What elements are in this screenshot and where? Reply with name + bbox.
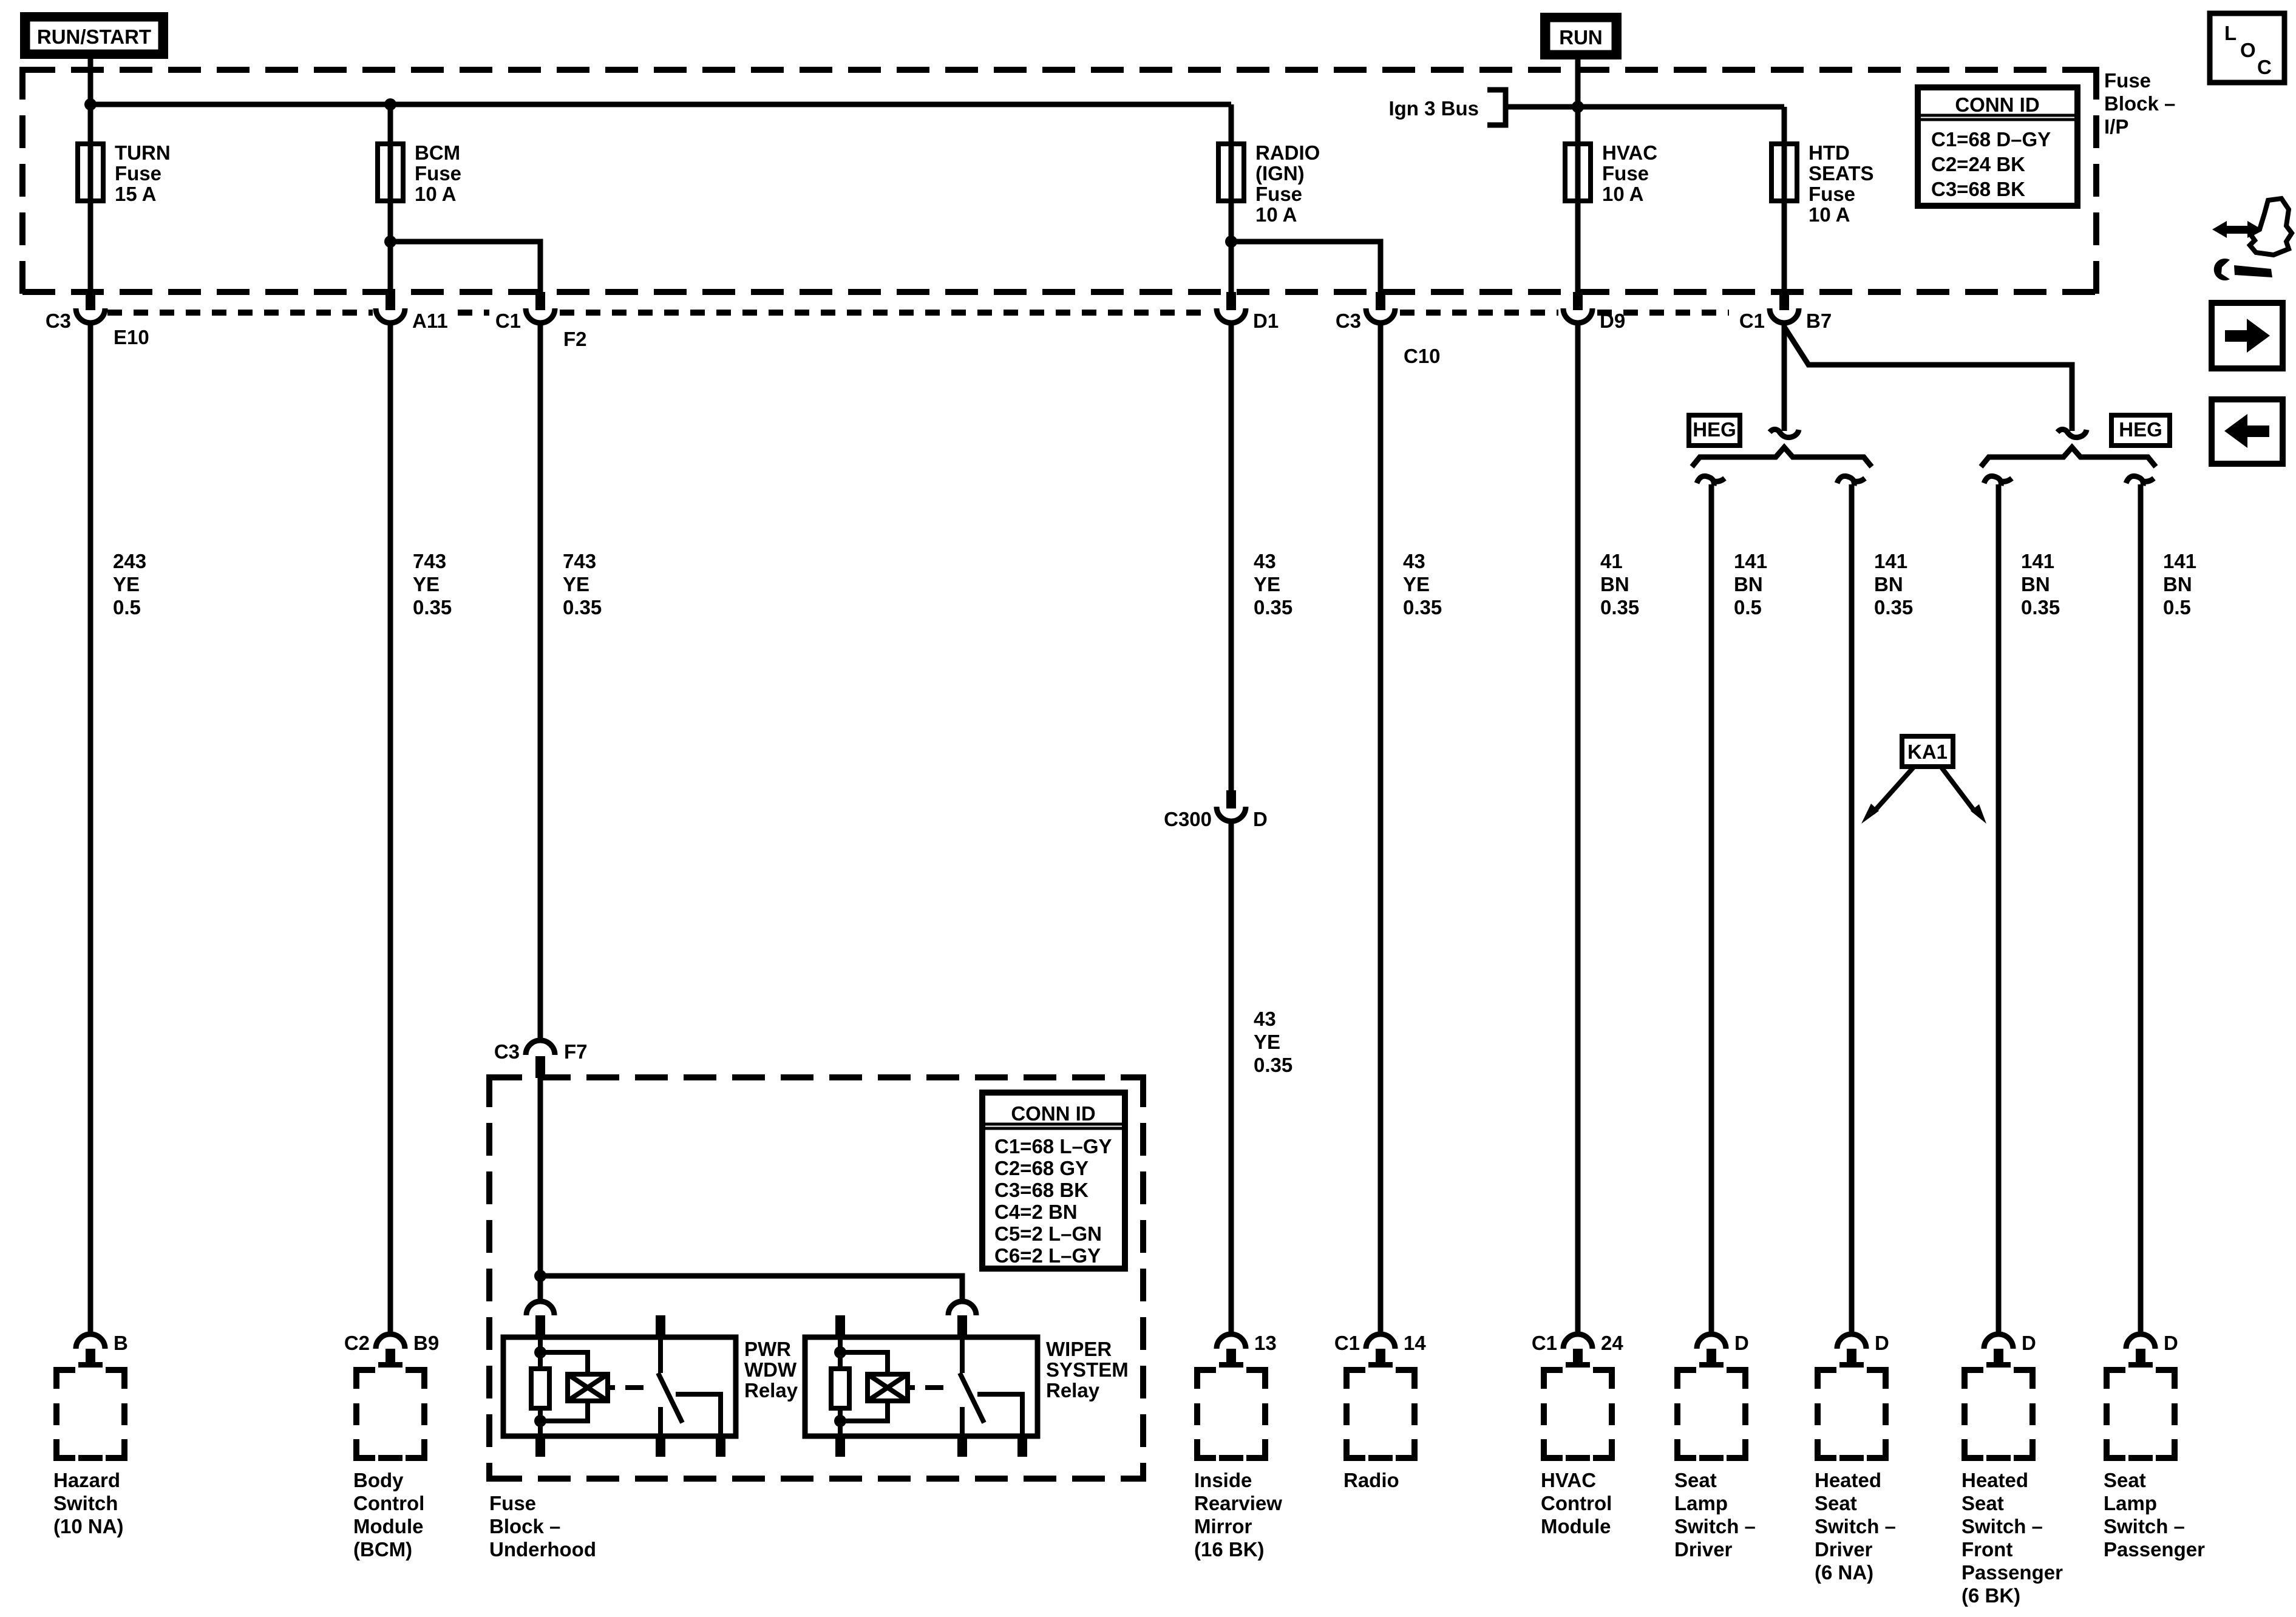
wire 141 BN 0.35 heated seat passenger — [1984, 476, 2012, 486]
svg-text:C3: C3 — [494, 1040, 520, 1063]
svg-text:Lamp: Lamp — [2104, 1492, 2157, 1514]
relay WIPER SYSTEM — [805, 1315, 1129, 1457]
svg-text:Ign 3 Bus: Ign 3 Bus — [1388, 97, 1479, 120]
svg-text:(6 NA): (6 NA) — [1815, 1561, 1873, 1584]
svg-text:Seat: Seat — [1674, 1469, 1717, 1491]
connector pin D — [2126, 1332, 2178, 1368]
svg-text:Switch –: Switch – — [2104, 1515, 2185, 1537]
wire BCM fuse drop — [388, 104, 393, 292]
svg-text:C1: C1 — [495, 310, 521, 332]
connector row dotted line — [107, 310, 1729, 316]
svg-text:0.35: 0.35 — [1874, 596, 1913, 619]
connector C1 pin 24 — [1532, 1332, 1624, 1368]
svg-text:YE: YE — [563, 573, 589, 595]
svg-text:C2: C2 — [344, 1332, 370, 1354]
svg-text:0.35: 0.35 — [1254, 1054, 1292, 1076]
node junction at TURN feed — [84, 98, 97, 110]
svg-text:C6=2 L–GY: C6=2 L–GY — [994, 1244, 1101, 1267]
relay PWR WDW — [503, 1315, 798, 1457]
svg-text:B7: B7 — [1806, 310, 1832, 332]
wire RUN feed — [1575, 59, 1581, 292]
svg-text:Heated: Heated — [1961, 1469, 2028, 1491]
power feed box RUN/START — [20, 12, 168, 59]
svg-text:RADIO: RADIO — [1255, 141, 1320, 164]
component hazard switch — [53, 1367, 127, 1537]
svg-text:YE: YE — [1254, 1031, 1280, 1053]
svg-text:C3: C3 — [1336, 310, 1361, 332]
connector C3 C10 — [1336, 292, 1441, 367]
svg-text:141: 141 — [1874, 550, 1907, 572]
fuse block I/P dashed outline — [22, 67, 2096, 295]
svg-text:Seat: Seat — [1815, 1492, 1857, 1514]
svg-text:D: D — [2022, 1332, 2036, 1354]
svg-text:Inside: Inside — [1194, 1469, 1252, 1491]
wire 743 YE to BCM — [388, 324, 393, 1335]
svg-text:Fuse: Fuse — [2104, 69, 2151, 92]
svg-text:HVAC: HVAC — [1541, 1469, 1596, 1491]
splice hook right — [2057, 429, 2087, 437]
svg-text:Hazard: Hazard — [53, 1469, 120, 1491]
arrow box right — [2212, 303, 2283, 368]
svg-text:(6 BK): (6 BK) — [1961, 1584, 2020, 1607]
fuse block underhood dashed outline — [489, 1074, 1143, 1482]
svg-text:(16 BK): (16 BK) — [1194, 1538, 1265, 1561]
svg-text:Fuse: Fuse — [1602, 162, 1649, 185]
svg-text:0.5: 0.5 — [2163, 596, 2191, 619]
svg-text:0.35: 0.35 — [1600, 596, 1639, 619]
wire B7 branch to right splice — [1785, 328, 2072, 431]
svg-text:I/P: I/P — [2104, 115, 2128, 138]
svg-text:Control: Control — [1541, 1492, 1612, 1514]
svg-text:Underhood: Underhood — [489, 1538, 596, 1561]
svg-text:Passenger: Passenger — [1961, 1561, 2063, 1584]
svg-text:HEG: HEG — [1693, 418, 1736, 441]
svg-text:F2: F2 — [563, 328, 587, 350]
svg-text:A11: A11 — [412, 310, 448, 332]
fuse RADIO IGN 10A — [1218, 144, 1244, 201]
svg-text:743: 743 — [563, 550, 596, 572]
connector C3 E10 — [46, 292, 149, 348]
svg-text:D: D — [2164, 1332, 2178, 1354]
HEG label right — [2111, 415, 2170, 446]
svg-text:C2=24 BK: C2=24 BK — [1931, 153, 2025, 175]
svg-text:PWR: PWR — [744, 1338, 791, 1360]
svg-text:C1=68 L–GY: C1=68 L–GY — [994, 1135, 1112, 1158]
connector id table I/P — [1918, 87, 2077, 206]
svg-text:O: O — [2240, 39, 2256, 61]
svg-text:243: 243 — [113, 550, 146, 572]
svg-text:YE: YE — [1254, 573, 1280, 595]
fuse TURN 15A — [78, 144, 103, 201]
svg-text:D9: D9 — [1600, 310, 1625, 332]
fuse HVAC 10A — [1565, 144, 1591, 201]
svg-text:C3: C3 — [46, 310, 71, 332]
wire 141 BN 0.5 seat lamp driver — [1697, 476, 1725, 486]
connector C3 F7 — [494, 1040, 588, 1078]
svg-text:(10 NA): (10 NA) — [53, 1515, 124, 1537]
svg-text:Mirror: Mirror — [1194, 1515, 1252, 1537]
wire 141 BN 0.5 seat lamp passenger — [2126, 476, 2154, 486]
connector C1 pin 14 — [1334, 1332, 1427, 1368]
svg-text:141: 141 — [2163, 550, 2196, 572]
svg-text:0.5: 0.5 — [1734, 596, 1762, 619]
svg-text:743: 743 — [413, 550, 446, 572]
svg-text:BN: BN — [2021, 573, 2050, 595]
connector D9 — [1563, 292, 1625, 332]
svg-text:24: 24 — [1601, 1332, 1623, 1354]
svg-text:BN: BN — [1600, 573, 1629, 595]
svg-text:10 A: 10 A — [1809, 203, 1850, 226]
svg-text:C1: C1 — [1532, 1332, 1557, 1354]
arrow box left — [2212, 399, 2283, 464]
svg-text:YE: YE — [413, 573, 440, 595]
svg-text:C5=2 L–GN: C5=2 L–GN — [994, 1222, 1102, 1245]
svg-text:Relay: Relay — [1046, 1379, 1100, 1402]
svg-text:Passenger: Passenger — [2104, 1538, 2205, 1561]
svg-text:0.35: 0.35 — [1254, 596, 1292, 619]
svg-text:C1: C1 — [1334, 1332, 1360, 1354]
svg-text:Driver: Driver — [1815, 1538, 1873, 1561]
svg-text:(IGN): (IGN) — [1255, 162, 1305, 185]
svg-text:BN: BN — [2163, 573, 2192, 595]
connector C300 D — [1164, 790, 1268, 830]
connector pin B — [76, 1332, 128, 1368]
svg-text:Switch –: Switch – — [1674, 1515, 1756, 1537]
svg-text:D1: D1 — [1253, 310, 1279, 332]
svg-text:15 A: 15 A — [115, 183, 156, 205]
svg-text:0.35: 0.35 — [413, 596, 452, 619]
wire 243 YE to hazard switch — [88, 324, 93, 1335]
svg-text:Fuse: Fuse — [115, 162, 161, 185]
svg-text:Fuse: Fuse — [1809, 183, 1855, 205]
HEG label left — [1689, 415, 1740, 446]
svg-text:10 A: 10 A — [1602, 183, 1643, 205]
component inside rearview mirror — [1194, 1367, 1282, 1561]
svg-text:Radio: Radio — [1343, 1469, 1399, 1491]
svg-text:KA1: KA1 — [1907, 741, 1948, 763]
svg-text:SYSTEM: SYSTEM — [1046, 1358, 1129, 1381]
svg-text:Rearview: Rearview — [1194, 1492, 1282, 1514]
connector id table underhood — [982, 1093, 1125, 1269]
svg-text:HEG: HEG — [2119, 418, 2162, 441]
svg-text:Switch: Switch — [53, 1492, 118, 1514]
connector pin D — [1837, 1332, 1889, 1368]
svg-text:0.35: 0.35 — [563, 596, 602, 619]
svg-text:SEATS: SEATS — [1809, 162, 1874, 185]
wire 43 YE to C300 — [1229, 324, 1234, 790]
component heated seat switch driver — [1815, 1367, 1896, 1584]
component seat lamp switch passenger — [2104, 1367, 2205, 1561]
wire 41 BN to HVAC control module — [1575, 324, 1581, 1335]
connector pin D — [1697, 1332, 1749, 1368]
svg-text:C1=68 D–GY: C1=68 D–GY — [1931, 128, 2051, 151]
component seat lamp switch driver — [1674, 1367, 1756, 1561]
brace right pair — [1981, 447, 2156, 467]
svg-text:BCM: BCM — [415, 141, 460, 164]
brace left pair — [1692, 447, 1872, 467]
connector D1 — [1217, 292, 1279, 332]
svg-text:Body: Body — [353, 1469, 404, 1491]
wire 141 BN 0.35 heated seat driver — [1837, 476, 1865, 486]
connector C1 F2 — [495, 292, 587, 350]
connector C2 pin B9 — [344, 1332, 439, 1368]
svg-text:BN: BN — [1874, 573, 1903, 595]
component HVAC control module — [1541, 1367, 1615, 1537]
svg-text:0.35: 0.35 — [1403, 596, 1442, 619]
wire 43 YE to inside rearview mirror — [1229, 822, 1234, 1335]
svg-text:C3=68 BK: C3=68 BK — [1931, 178, 2025, 200]
svg-text:0.35: 0.35 — [2021, 596, 2060, 619]
svg-text:RUN/START: RUN/START — [37, 25, 151, 48]
fuse BCM 10A — [378, 144, 403, 201]
svg-text:Module: Module — [353, 1515, 423, 1537]
svg-text:43: 43 — [1254, 550, 1276, 572]
wire 43 YE to radio — [1378, 324, 1384, 1335]
svg-text:41: 41 — [1600, 550, 1623, 572]
node junction BCM branch — [384, 236, 396, 248]
svg-text:0.5: 0.5 — [113, 596, 141, 619]
svg-text:Control: Control — [353, 1492, 424, 1514]
svg-text:43: 43 — [1403, 550, 1425, 572]
svg-text:10 A: 10 A — [1255, 203, 1297, 226]
wire 743 YE to underhood fuse block — [538, 324, 543, 1040]
svg-text:43: 43 — [1254, 1008, 1276, 1030]
connector pin D — [1984, 1332, 2036, 1368]
svg-text:F7: F7 — [564, 1040, 588, 1063]
svg-text:Driver: Driver — [1674, 1538, 1733, 1561]
fuse HTD SEATS 10A — [1771, 144, 1797, 201]
node junction at BCM feed — [384, 98, 396, 110]
svg-text:B: B — [114, 1332, 128, 1354]
connector pin 13 — [1217, 1332, 1277, 1368]
svg-text:Block –: Block – — [2104, 92, 2175, 115]
wire B7 drop to splice — [1782, 324, 1787, 431]
relay coil hook PWR WDW — [526, 1301, 554, 1315]
svg-text:Fuse: Fuse — [1255, 183, 1302, 205]
connector C1 B7 — [1739, 292, 1832, 332]
svg-text:141: 141 — [2021, 550, 2054, 572]
svg-text:CONN ID: CONN ID — [1955, 93, 2039, 116]
svg-text:Module: Module — [1541, 1515, 1611, 1537]
svg-text:RUN: RUN — [1559, 26, 1603, 49]
svg-text:TURN: TURN — [115, 141, 171, 164]
svg-text:C4=2 BN: C4=2 BN — [994, 1201, 1078, 1223]
svg-text:BN: BN — [1734, 573, 1763, 595]
svg-text:HTD: HTD — [1809, 141, 1850, 164]
component radio — [1343, 1367, 1418, 1491]
svg-text:Block –: Block – — [489, 1515, 560, 1537]
connector A11 — [376, 292, 448, 332]
svg-text:WIPER: WIPER — [1046, 1338, 1112, 1360]
svg-text:HVAC: HVAC — [1602, 141, 1657, 164]
service icon hand and wrench — [2212, 198, 2292, 280]
svg-text:Front: Front — [1961, 1538, 2012, 1561]
wire HTD SEATS fuse drop — [1782, 107, 1787, 292]
svg-text:CONN ID: CONN ID — [1011, 1102, 1095, 1125]
svg-text:141: 141 — [1734, 550, 1767, 572]
svg-text:D: D — [1253, 808, 1268, 830]
wire ignition 1 bus — [90, 102, 1231, 107]
wire branch to F2 — [390, 242, 540, 292]
svg-text:Lamp: Lamp — [1674, 1492, 1728, 1514]
svg-text:Switch –: Switch – — [1815, 1515, 1896, 1537]
svg-text:Seat: Seat — [2104, 1469, 2146, 1491]
svg-text:13: 13 — [1254, 1332, 1277, 1354]
relay switch hook WIPER SYSTEM — [948, 1301, 976, 1315]
svg-text:B9: B9 — [413, 1332, 439, 1354]
node junction RUN / ign3 — [1572, 101, 1584, 113]
svg-text:YE: YE — [113, 573, 140, 595]
svg-text:Fuse: Fuse — [415, 162, 461, 185]
wire branch to C10 — [1231, 242, 1381, 292]
svg-text:Fuse: Fuse — [489, 1492, 536, 1514]
splice hook left — [1770, 429, 1799, 437]
svg-text:10 A: 10 A — [415, 183, 456, 205]
wire F7 to relays — [538, 1078, 543, 1301]
svg-text:C300: C300 — [1164, 808, 1212, 830]
svg-text:C2=68 GY: C2=68 GY — [994, 1157, 1089, 1179]
component body control module — [353, 1367, 427, 1561]
svg-text:C10: C10 — [1404, 345, 1441, 367]
LOC legend box — [2210, 13, 2284, 83]
component heated seat switch front passenger — [1961, 1367, 2063, 1607]
svg-text:D: D — [1875, 1332, 1889, 1354]
svg-text:D: D — [1734, 1332, 1749, 1354]
svg-text:C3=68 BK: C3=68 BK — [994, 1179, 1089, 1201]
Ign 3 Bus bracket — [1487, 90, 1784, 125]
svg-text:C: C — [2257, 56, 2272, 78]
svg-text:YE: YE — [1403, 573, 1430, 595]
svg-text:E10: E10 — [114, 326, 149, 348]
svg-text:Switch –: Switch – — [1961, 1515, 2043, 1537]
power feed box RUN — [1540, 13, 1622, 59]
wire run/start feed — [88, 59, 93, 292]
node junction RADIO branch — [1225, 236, 1237, 248]
svg-text:WDW: WDW — [744, 1358, 797, 1381]
svg-text:Seat: Seat — [1961, 1492, 2004, 1514]
svg-text:(BCM): (BCM) — [353, 1538, 412, 1561]
svg-text:Heated: Heated — [1815, 1469, 1881, 1491]
wire RADIO fuse drop — [1229, 104, 1234, 292]
splice KA1 callout — [1861, 736, 1986, 824]
svg-text:L: L — [2224, 22, 2237, 44]
svg-text:14: 14 — [1404, 1332, 1426, 1354]
svg-text:C1: C1 — [1739, 310, 1765, 332]
svg-text:Relay: Relay — [744, 1379, 798, 1402]
